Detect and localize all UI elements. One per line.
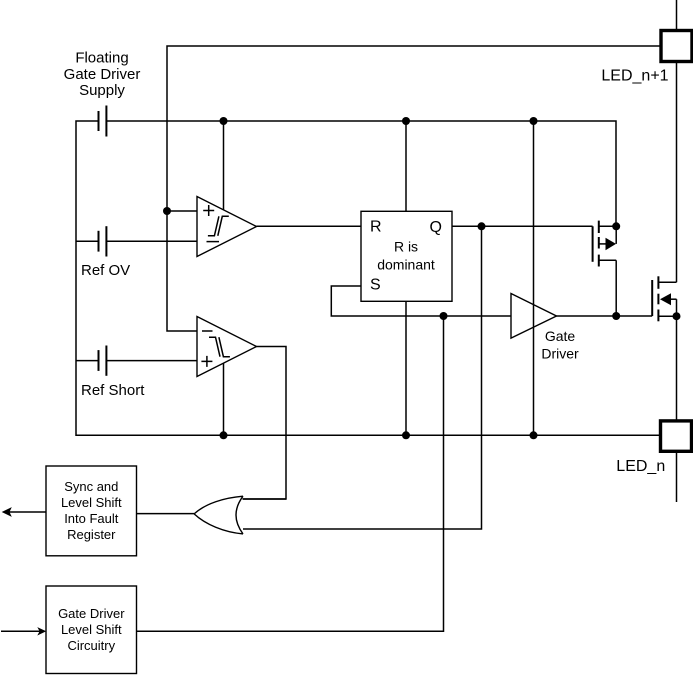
wire Q down to OR input <box>243 226 482 529</box>
wire level shift input arrow <box>1 630 40 632</box>
wire comp1 out to R <box>257 225 362 227</box>
svg-text:dominant: dominant <box>377 256 435 272</box>
terminal LED_n+1 <box>661 31 692 62</box>
svg-text:S: S <box>370 277 381 294</box>
battery B2 Ref OV <box>76 240 99 242</box>
hysteresis glyph U1 <box>208 216 229 236</box>
wire latch top supply <box>405 121 407 211</box>
svg-text:Ref Short: Ref Short <box>81 382 145 399</box>
svg-text:Floating: Floating <box>75 50 128 67</box>
battery B3 Ref Short <box>76 360 99 362</box>
node S line dot <box>440 312 448 320</box>
node rail dot C <box>530 117 538 125</box>
svg-text:Gate: Gate <box>545 328 576 344</box>
svg-text:Gate Driver: Gate Driver <box>64 66 141 83</box>
box gate driver level shift <box>46 586 137 674</box>
node comp1 plus branch dot <box>163 207 171 215</box>
svg-text:Level Shift: Level Shift <box>61 495 122 510</box>
svg-text:Register: Register <box>67 527 116 542</box>
wire latch bottom to rail <box>405 301 407 435</box>
wire comp1 plus input <box>167 210 197 212</box>
latch U3 RS <box>361 211 452 301</box>
svg-text:Gate Driver: Gate Driver <box>58 606 125 621</box>
svg-text:Supply: Supply <box>79 82 125 99</box>
transistor Q1 (small NMOS) <box>592 226 594 261</box>
svg-text:Into Fault: Into Fault <box>64 511 119 526</box>
wire LED string top <box>676 0 678 31</box>
svg-text:R is: R is <box>394 239 418 255</box>
svg-text:LED_n: LED_n <box>616 458 665 475</box>
buffer U4 gate driver <box>511 294 557 339</box>
svg-text:Circuitry: Circuitry <box>67 638 115 653</box>
svg-text:Level Shift: Level Shift <box>61 622 122 637</box>
svg-text:Driver: Driver <box>541 345 579 361</box>
wire gate driver output <box>557 315 653 317</box>
wire LED_n stub <box>676 451 678 502</box>
wire top LED_n+1 sense line <box>167 46 661 331</box>
wire fault output arrow <box>9 511 46 513</box>
svg-text:Ref OV: Ref OV <box>81 262 130 279</box>
wire supply mid drop <box>533 121 535 435</box>
wire comp2 plus input <box>106 360 197 362</box>
wire comp2 ground stub <box>223 363 225 435</box>
node rail dot A <box>220 117 228 125</box>
box sync fault register <box>46 466 137 556</box>
svg-text:Q: Q <box>430 219 442 236</box>
wire comp2 output to OR <box>243 347 287 500</box>
wire comp1 minus input <box>106 240 197 242</box>
svg-text:R: R <box>370 219 382 236</box>
wire source to LED_n <box>676 316 678 421</box>
battery B1 Floating Gate Driver Supply <box>98 111 100 131</box>
comparator U1 (OV) <box>223 121 225 210</box>
hysteresis glyph U2 <box>209 337 230 357</box>
wire S loop <box>331 286 511 316</box>
wire Q output <box>452 225 593 227</box>
node bottom rail dot B <box>402 431 410 439</box>
node bottom rail dot A <box>220 431 228 439</box>
gate G1 OR (mirrored) <box>194 496 243 534</box>
wire OR top input <box>243 498 287 500</box>
wire LED_n+1 to drain <box>676 62 678 283</box>
wire OR output <box>137 513 195 515</box>
node bottom rail dot C <box>530 431 538 439</box>
comparator U2 (Short) <box>197 317 257 377</box>
wire level shift riser <box>137 316 444 631</box>
svg-text:Sync and: Sync and <box>64 479 118 494</box>
svg-text:LED_n+1: LED_n+1 <box>601 68 668 85</box>
transistor Q2 (big NMOS) <box>651 280 653 316</box>
wire left rail <box>76 121 661 435</box>
node gate driver out dot <box>612 312 620 320</box>
wire top supply rail <box>106 121 616 226</box>
terminal LED_n <box>661 421 692 451</box>
node Q dot <box>478 222 486 230</box>
node rail dot B <box>402 117 410 125</box>
